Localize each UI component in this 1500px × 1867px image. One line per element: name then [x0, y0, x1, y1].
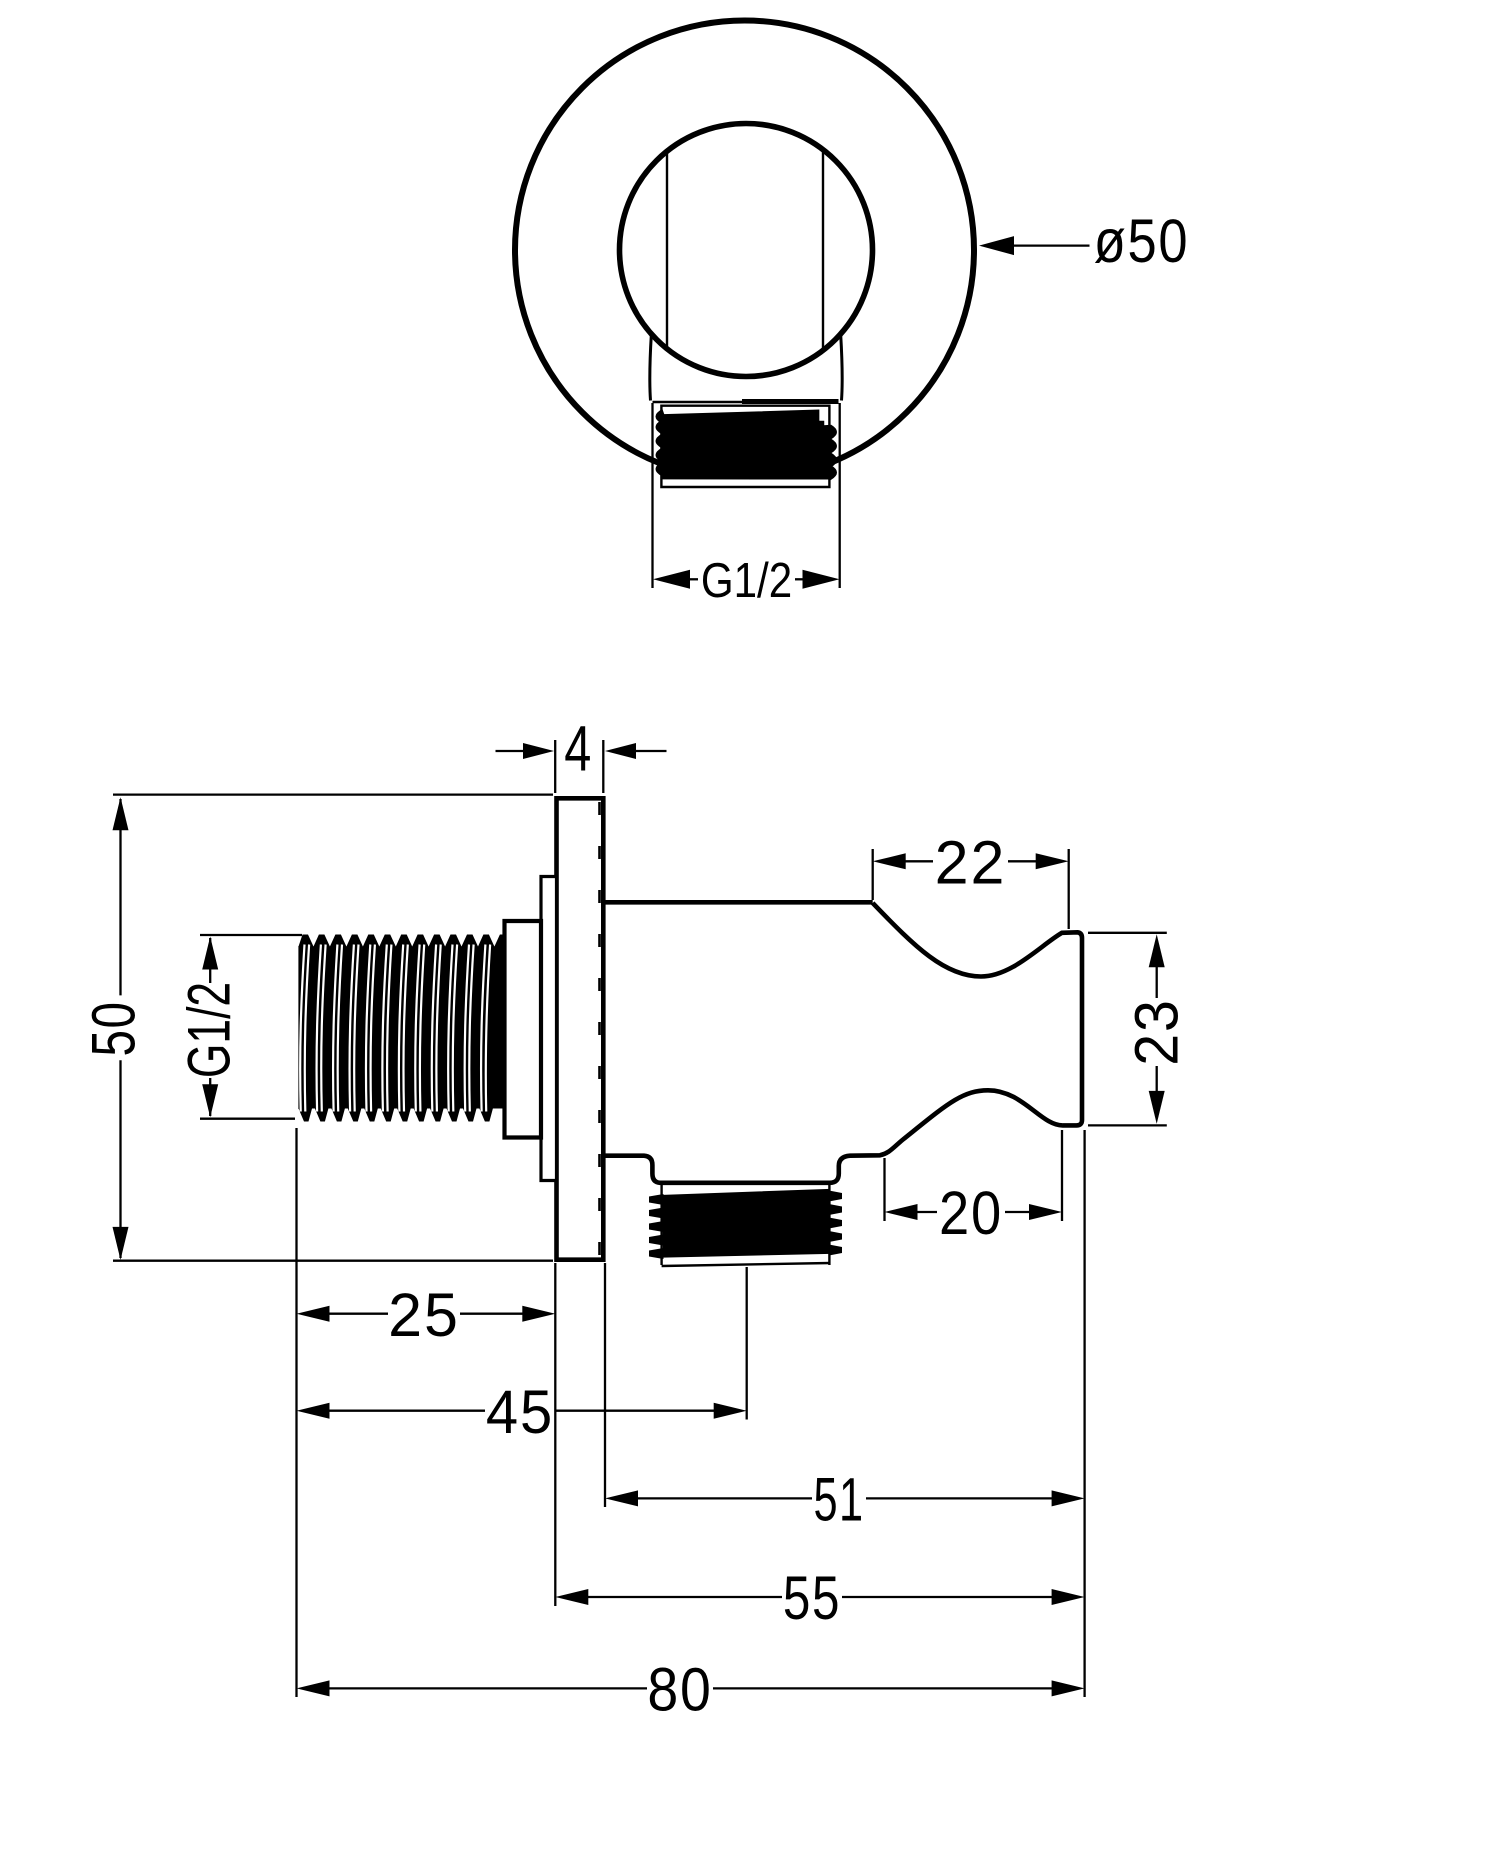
dim 80 label [647, 1656, 712, 1724]
dim 23 label rotated [1122, 998, 1191, 1066]
neck outline below holder ring [650, 335, 652, 401]
dim 22 label [935, 829, 1007, 897]
dim 45 label [486, 1378, 554, 1447]
outlet thread housing box (side view) [660, 1184, 662, 1265]
svg-text:ø50: ø50 [1094, 208, 1190, 277]
dimension G1/2 (top view) arrows and line [653, 570, 690, 589]
right chord line (handle silhouette) [822, 149, 824, 350]
hidden edge dashed line on plate [598, 802, 601, 1257]
svg-text:23: 23 [1122, 998, 1191, 1066]
threaded connector G1/2 (top view, black) [656, 410, 836, 479]
holder ring inner circle [620, 124, 873, 377]
dim 50 line and arrows [119, 799, 121, 995]
svg-text:45: 45 [486, 1378, 554, 1447]
dim 51 label [813, 1466, 864, 1534]
dim 23 extension lines [1088, 932, 1167, 934]
dim G1/2 (side) label rotated [176, 982, 243, 1078]
holder body top edge [604, 900, 873, 905]
svg-text:4: 4 [564, 714, 593, 785]
svg-text:G1/2: G1/2 [701, 553, 792, 608]
retaining washer disc [541, 877, 557, 1181]
dim 80 line arrows [297, 1680, 330, 1696]
dim 50 label (rotated) [79, 1000, 148, 1056]
dim G1/2 (side) line and arrows [209, 938, 211, 983]
label G1/2 (top view) [701, 553, 792, 608]
dim 4 extension lines [554, 740, 556, 793]
dim 25 label [388, 1281, 460, 1349]
svg-text:51: 51 [813, 1466, 864, 1534]
holder hook hump curve and body bottom edge [604, 1090, 1063, 1183]
pipe end face line [298, 946, 301, 1109]
label diameter 50 [1094, 208, 1190, 277]
hex nut profile [505, 921, 542, 1138]
dim 51 line arrows [605, 1490, 638, 1506]
dim 4 arrows (outside) [523, 743, 554, 759]
svg-text:50: 50 [79, 1000, 148, 1056]
dim 22 extension lines [872, 849, 874, 900]
dim 22 line arrows [873, 853, 906, 869]
svg-text:80: 80 [647, 1656, 712, 1724]
dim 55 line arrows [555, 1589, 588, 1605]
svg-text:25: 25 [388, 1281, 460, 1349]
wall-side threaded pipe G1/2 (side view) [299, 935, 505, 1122]
dim 25 line arrows [297, 1306, 330, 1322]
left chord line (handle silhouette) [666, 151, 668, 349]
wall plate (escutcheon side) [557, 798, 604, 1259]
dim 55 label [783, 1564, 841, 1632]
svg-text:20: 20 [939, 1180, 1003, 1248]
dim 45 line arrows [297, 1403, 330, 1419]
leader arrow for diameter 50 [979, 236, 1014, 255]
dim G1/2 (side) extension lines [200, 934, 302, 936]
holder saddle dip curve [873, 903, 1082, 1125]
thread housing box (top view) [661, 406, 829, 487]
outer ring (wall escutcheon) circle [515, 21, 974, 480]
dimension G1/2 (top view) extension lines [651, 403, 653, 588]
svg-text:G1/2: G1/2 [176, 982, 243, 1078]
dim 20 label [939, 1180, 1003, 1248]
dim 20 line arrows [885, 1204, 918, 1220]
svg-text:22: 22 [935, 829, 1007, 897]
dim 20 extension lines [883, 1158, 885, 1221]
dim 4 label [564, 714, 593, 785]
outlet threaded connector (side view, black) [663, 1190, 830, 1257]
svg-text:55: 55 [783, 1564, 841, 1632]
dim 23 line arrows [1149, 934, 1165, 967]
neck bottom shoulder line [653, 401, 748, 404]
bottom dims extension verticals [295, 1128, 297, 1697]
thread helix white slivers [300, 945, 304, 1112]
dim 50 extension lines [113, 793, 553, 795]
